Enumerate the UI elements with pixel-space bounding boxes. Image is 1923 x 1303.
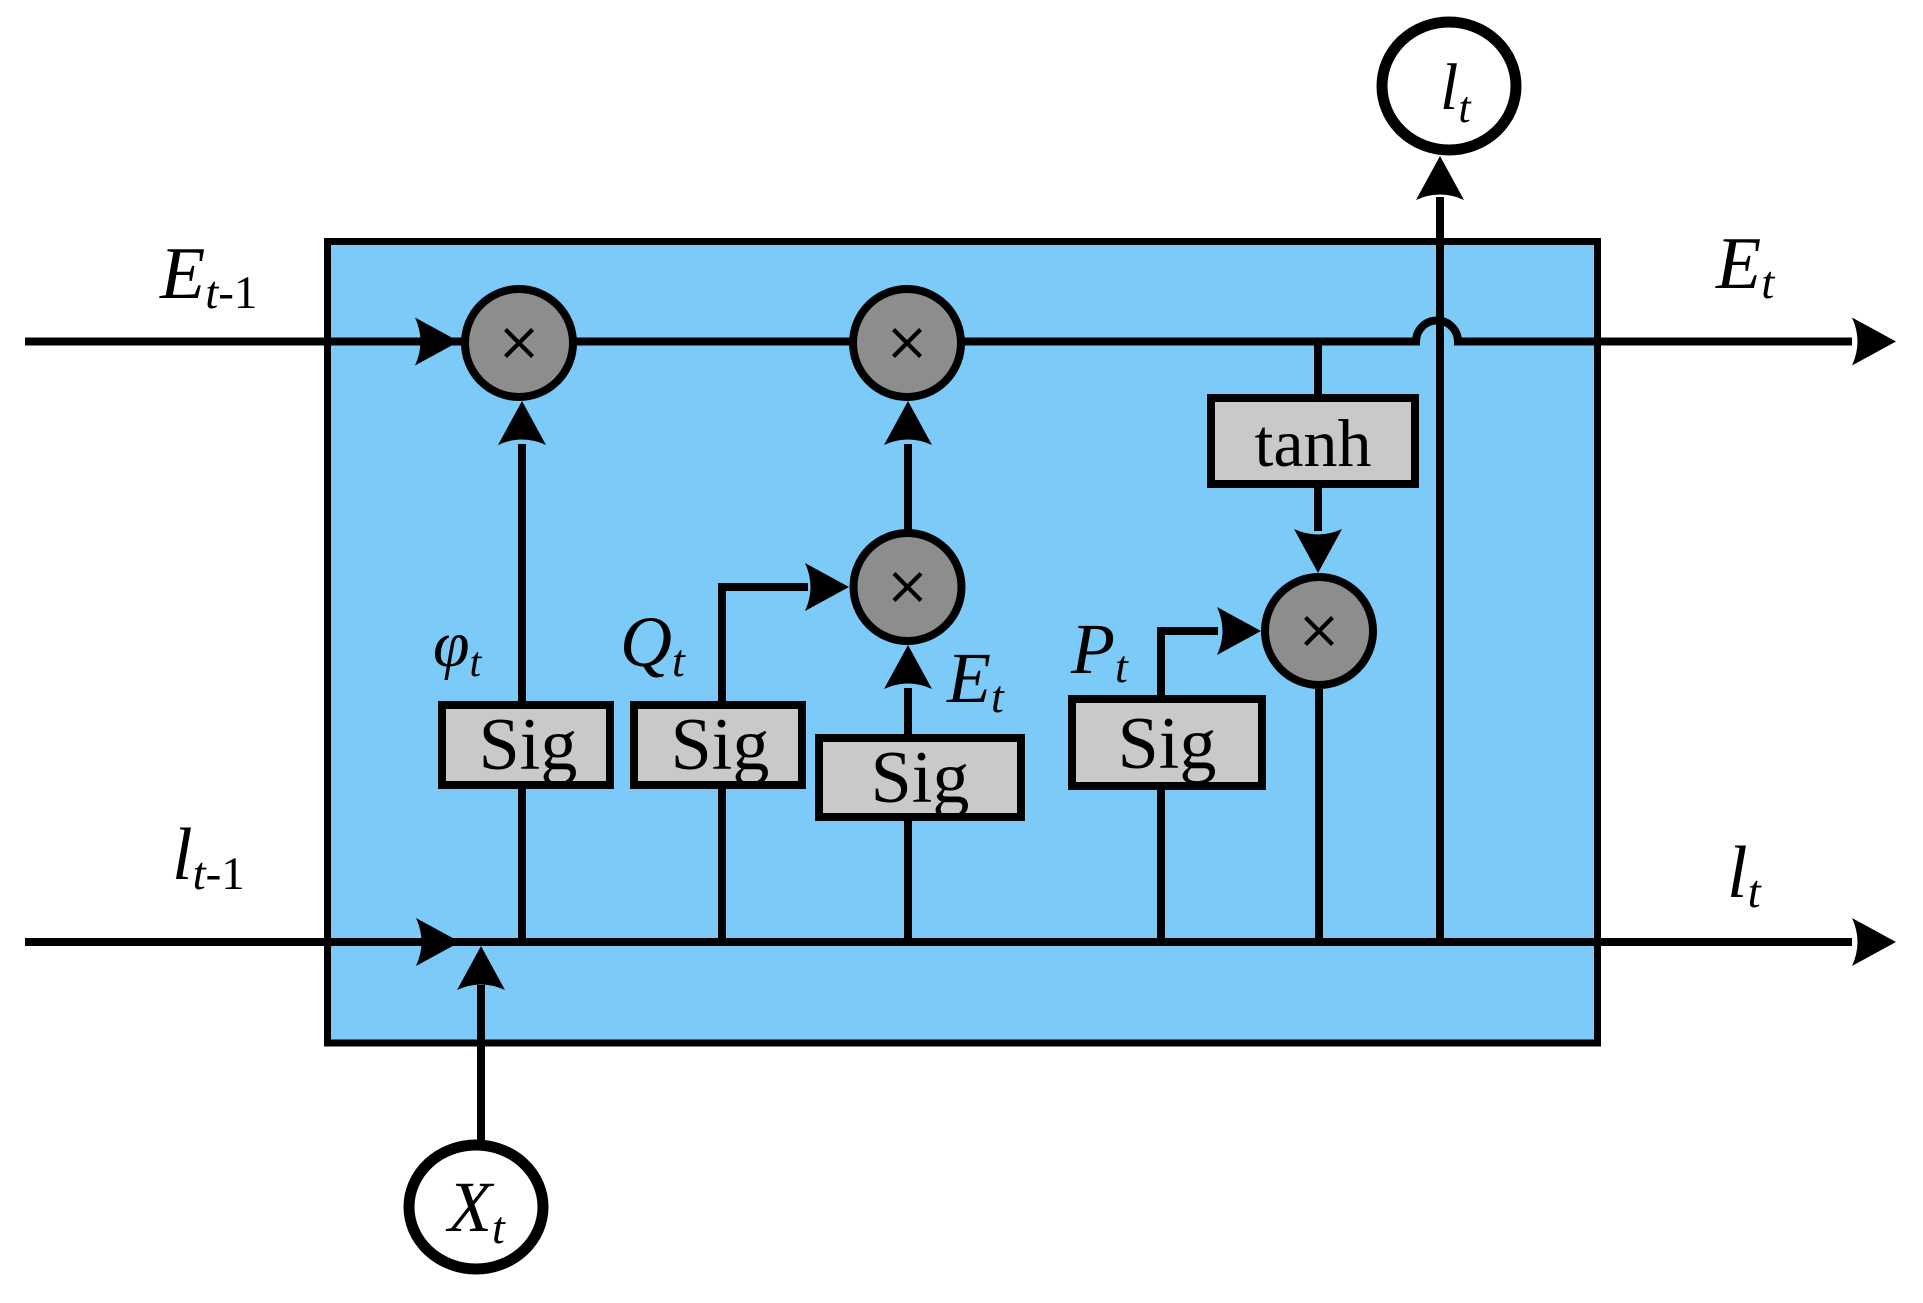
svg-text:Sig: Sig xyxy=(871,737,970,819)
svg-text:Sig: Sig xyxy=(479,704,578,786)
arrowhead: E_t-1 into C1 xyxy=(415,318,459,366)
multiply node C3 xyxy=(854,533,962,641)
wire: candidate vertical from Sig3 to node C3 xyxy=(904,688,912,942)
Sig gate box 3 (candidate) xyxy=(819,738,1021,817)
multiply node C4 xyxy=(1265,577,1373,685)
arrowhead: Sig1 up into C1 xyxy=(498,401,546,445)
output circle l_t xyxy=(1382,22,1516,150)
wire: E line down to tanh xyxy=(1314,342,1322,399)
multiply node C2 xyxy=(853,289,961,397)
wire: node C4 down to l line xyxy=(1315,689,1323,942)
arrowhead: tanh down into C4 xyxy=(1294,529,1342,573)
wire: l (hidden state) horizontal line xyxy=(25,938,1852,946)
svg-text:Sig: Sig xyxy=(671,704,770,786)
arrowhead: riser up into l_t circle xyxy=(1416,156,1464,200)
Sig gate box 2 (input) xyxy=(634,705,802,785)
input circle X_t xyxy=(409,1145,543,1269)
arrowhead: X_t up into l line xyxy=(457,946,505,990)
wire: E (cell state) horizontal line with hop over l_t riser xyxy=(25,321,1852,342)
Sig gate box 4 (output) xyxy=(1072,699,1262,786)
Sig gate box 1 (forget) xyxy=(442,705,610,785)
arrowhead: E_t exit right xyxy=(1852,318,1896,366)
arrowhead: l_t exit right xyxy=(1852,918,1896,966)
svg-text:tanh: tanh xyxy=(1254,405,1371,481)
svg-text:Sig: Sig xyxy=(1118,703,1217,785)
arrowhead: Sig4 L into C4 xyxy=(1217,607,1261,655)
wire: forget-gate vertical through Sig1 xyxy=(518,444,526,942)
wire: tanh down to node C4 xyxy=(1314,488,1322,531)
multiply node C1 xyxy=(465,289,573,397)
wire: X_t input up to l line xyxy=(477,985,485,1141)
wire: output-gate L from Sig4 to node C4 xyxy=(1161,631,1218,942)
arrowhead: l_t-1 entry xyxy=(416,918,460,966)
LSTM cell body box xyxy=(328,242,1598,1044)
wire: input-gate L from Sig2 to node C3 xyxy=(722,587,808,942)
wire: l_t riser from l line up to output circle xyxy=(1436,197,1444,942)
arrowhead: Sig2 L into C3 xyxy=(805,563,849,611)
arrowhead: C3 up into C2 xyxy=(884,401,932,445)
arrowhead: Sig3 up into C3 xyxy=(884,645,932,689)
wire: node C3 to node C2 xyxy=(904,444,912,532)
tanh box xyxy=(1211,398,1415,484)
